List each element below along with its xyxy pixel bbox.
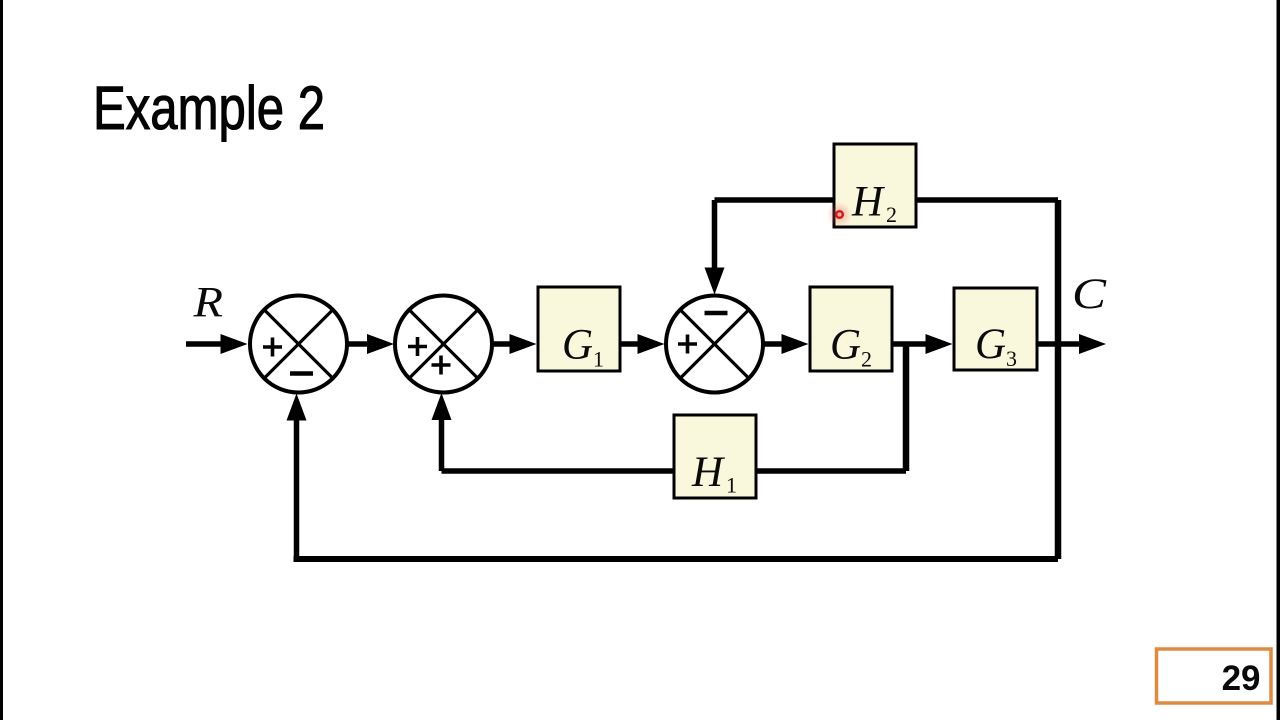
wire S3 to G2: [763, 334, 809, 354]
wire R input: [186, 334, 248, 354]
block G1: [538, 287, 620, 372]
wire top feedback to H2: [715, 197, 1059, 203]
svg-text:1: 1: [726, 473, 737, 498]
wire G3 to output C: [1037, 334, 1106, 354]
svg-text:2: 2: [861, 347, 872, 372]
wire S2 to G1: [492, 334, 537, 354]
wire S1 to S2: [347, 334, 394, 354]
svg-text:29: 29: [1222, 659, 1261, 698]
wire H2 to S3 with arrow: [705, 200, 725, 295]
svg-text:R: R: [192, 280, 223, 327]
summing junction S1: [250, 296, 347, 393]
svg-text:G: G: [562, 322, 593, 369]
svg-text:C: C: [1072, 271, 1108, 318]
summing junction S2: [395, 296, 492, 393]
svg-text:H: H: [691, 449, 725, 496]
block H1: [674, 415, 756, 498]
svg-text:2: 2: [886, 202, 897, 227]
svg-text:G: G: [975, 321, 1006, 368]
title "Example 2": [93, 74, 325, 142]
wire H1 to S2 with arrow: [432, 393, 452, 471]
svg-text:1: 1: [593, 347, 604, 372]
block H2: [834, 144, 916, 227]
wire H1 feedback horizontal: [442, 468, 907, 474]
svg-text:G: G: [830, 322, 861, 369]
wire outer feedback to S1 with arrow: [287, 394, 307, 560]
svg-text:3: 3: [1006, 346, 1017, 371]
laser pointer dot: [827, 202, 853, 228]
wire outer feedback bottom: [294, 556, 1059, 562]
block G3: [954, 288, 1037, 371]
node C label: [1072, 271, 1108, 318]
takeoff vertical wire at output: [1055, 200, 1062, 559]
node R label: [192, 280, 223, 327]
summing junction S3: [666, 296, 763, 393]
svg-text:Example 2: Example 2: [93, 74, 325, 142]
svg-text:H: H: [851, 179, 885, 226]
wire G1 to S3: [620, 334, 665, 354]
page number box: [1157, 649, 1272, 703]
wire G2 to G3 with H1 tap: [892, 334, 953, 471]
block G2: [810, 287, 892, 372]
